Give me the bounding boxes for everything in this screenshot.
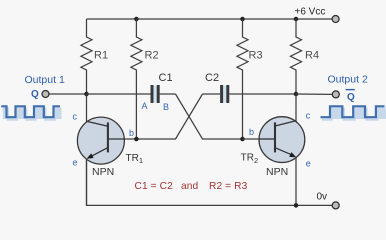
wire TR1 collector: [86, 94, 88, 123]
svg-text:Output 1: Output 1: [25, 74, 65, 86]
resistor R2: [131, 19, 142, 139]
wire output1 to collector node: [49, 93, 86, 95]
wire diagonal C1 to TR2 base: [176, 94, 243, 139]
svg-text:c: c: [306, 111, 311, 121]
wire TR2 base to node: [243, 138, 260, 140]
Output 1 terminal: [42, 91, 49, 98]
wire TR1 base to node: [125, 138, 137, 140]
svg-text:Output 2: Output 2: [328, 74, 368, 86]
svg-text:C1: C1: [159, 72, 173, 84]
node top R3: [240, 17, 245, 22]
svg-text:NPN: NPN: [266, 166, 288, 178]
wire collector node to C1: [87, 93, 151, 95]
svg-text:Q: Q: [31, 89, 39, 100]
svg-text:0v: 0v: [317, 192, 328, 203]
svg-text:C2: C2: [205, 72, 219, 84]
node TR1 base: [134, 137, 139, 142]
wire C2 to output2 node: [229, 93, 296, 95]
svg-text:R1: R1: [94, 50, 108, 62]
node TR2 collector: [294, 92, 299, 97]
wire C2 left: [203, 93, 221, 95]
svg-text:e: e: [73, 158, 78, 168]
node TR1 collector: [84, 92, 89, 97]
svg-text:A: A: [142, 101, 148, 111]
svg-text:b: b: [129, 128, 134, 138]
svg-text:B: B: [163, 102, 169, 112]
wire diagonal C2 to TR1 base: [136, 94, 202, 139]
svg-text:R4: R4: [305, 50, 319, 62]
svg-text:Q: Q: [347, 92, 355, 103]
wire output2: [296, 93, 332, 95]
wire TR1 emitter: [86, 160, 88, 206]
node top R4: [294, 17, 299, 22]
0v terminal: [332, 202, 339, 209]
svg-text:R3: R3: [249, 50, 263, 62]
wire bottom rail 0v: [87, 160, 332, 206]
node TR2 base: [240, 137, 245, 142]
svg-text:+6 Vcc: +6 Vcc: [295, 7, 326, 18]
square wave output 2: [321, 106, 386, 119]
resistor R1: [81, 19, 92, 94]
capacitor C1: [151, 85, 160, 103]
wire TR2 emitter: [295, 158, 297, 206]
svg-text:C1 = C2andR2 = R3: C1 = C2andR2 = R3: [135, 181, 248, 192]
Vcc terminal: [332, 16, 339, 23]
node bottom TR2 emitter: [294, 203, 299, 208]
svg-text:b: b: [249, 127, 254, 137]
resistor R4: [291, 19, 302, 94]
svg-text:c: c: [73, 112, 78, 122]
svg-text:e: e: [306, 159, 311, 169]
svg-text:R2: R2: [145, 50, 159, 62]
resistor R3: [237, 19, 248, 139]
wire top rail +6V: [87, 18, 332, 20]
Output 2 terminal: [332, 91, 339, 98]
square wave output 1: [1, 106, 61, 119]
transistor TR2: [259, 117, 305, 163]
svg-text:NPN: NPN: [92, 166, 114, 178]
capacitor C2: [220, 85, 229, 103]
wire C1 to bend: [160, 93, 176, 95]
wire TR2 collector: [295, 94, 297, 122]
node top R2: [134, 17, 139, 22]
transistor TR1: [77, 117, 124, 164]
